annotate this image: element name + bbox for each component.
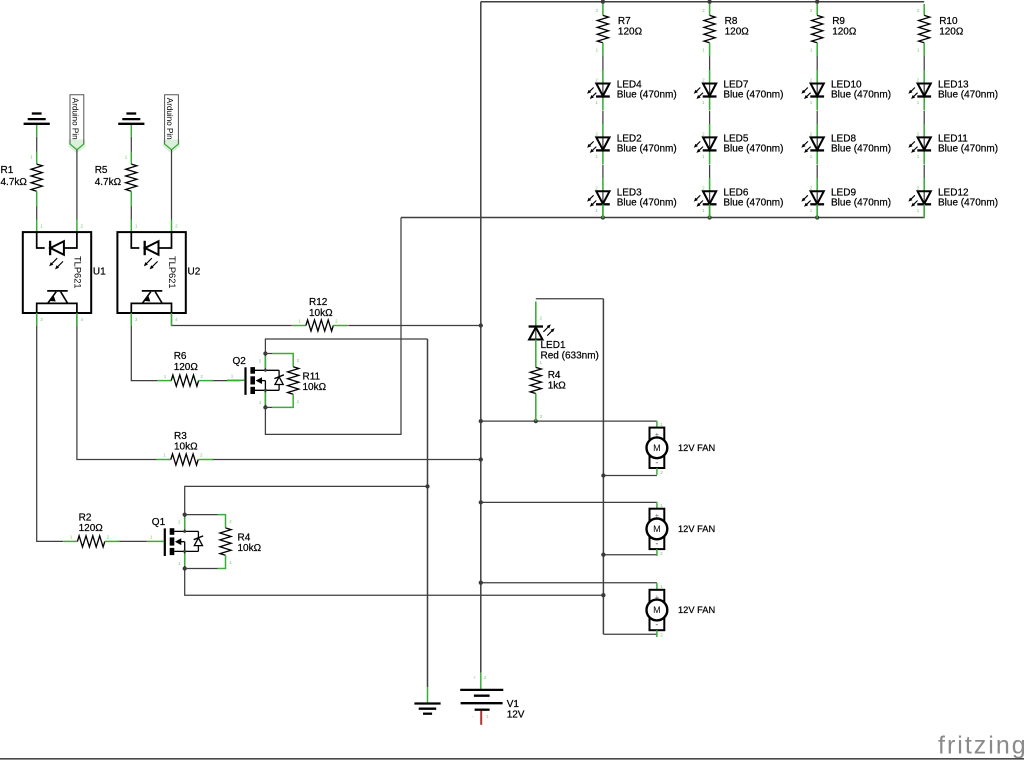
wire ground to R1 <box>36 125 38 137</box>
wire column 1 segment below LED2 <box>602 165 604 179</box>
junction Q1 source wire at bus <box>601 593 605 597</box>
svg-text:U2: U2 <box>188 267 201 278</box>
transistor Q2 N-MOSFET <box>227 351 284 409</box>
svg-text:10kΩ: 10kΩ <box>238 543 262 554</box>
svg-text:120Ω: 120Ω <box>174 362 199 373</box>
svg-text:R11: R11 <box>303 372 321 383</box>
wire R6 to Q2 gate <box>211 380 241 382</box>
svg-text:R10: R10 <box>939 16 958 27</box>
junction top rail col1 <box>601 0 605 4</box>
junction top rail col2 <box>707 0 711 4</box>
LED LED8 Blue 470nm <box>801 124 891 164</box>
LED LED7 Blue 470nm <box>694 70 784 110</box>
optocoupler U1 TLP621 <box>23 232 106 326</box>
junction fan3 feed at +12V rail <box>479 581 483 585</box>
bottom border line <box>0 758 1024 760</box>
resistor R10 120ohm <box>917 4 964 57</box>
connector J1 Arduino Pin for U1 <box>69 95 86 154</box>
svg-text:M: M <box>653 605 661 615</box>
wire column 2 to bottom rail <box>709 204 711 217</box>
connector J2 Arduino Pin for U2 <box>163 95 180 154</box>
svg-text:Blue (470nm): Blue (470nm) <box>723 90 783 101</box>
wire U2 pin3 to R6 <box>131 313 157 381</box>
junction bottom rail col1 <box>601 215 605 219</box>
wire column 2 segment R-LED <box>709 56 711 70</box>
svg-text:R7: R7 <box>618 16 631 27</box>
LED LED3 Blue 470nm <box>587 178 677 218</box>
LED LED11 Blue 470nm <box>908 124 998 164</box>
resistor R3 10kohm <box>157 431 213 465</box>
svg-text:120Ω: 120Ω <box>832 26 857 37</box>
wire Q1 drain to ground line <box>185 486 428 514</box>
LED LED9 Blue 470nm <box>801 178 891 218</box>
svg-text:R8: R8 <box>725 16 738 27</box>
resistor R6 120ohm <box>157 351 213 386</box>
wire fan 3 negative to bus <box>603 633 657 635</box>
wire column 3 segment R-LED <box>816 56 818 70</box>
wire top +12V rail of LED grid <box>481 1 924 3</box>
svg-text:12V FAN: 12V FAN <box>678 443 715 453</box>
svg-text:120Ω: 120Ω <box>618 26 643 37</box>
svg-text:Q2: Q2 <box>233 356 247 367</box>
wire column 2 segment below LED7 <box>709 111 711 125</box>
svg-text:R9: R9 <box>832 16 845 27</box>
wire ground to R5 <box>130 125 132 137</box>
resistor R1 4.7kohm <box>1 164 43 191</box>
svg-text:Blue (470nm): Blue (470nm) <box>831 198 891 209</box>
svg-text:TLP621: TLP621 <box>167 256 177 289</box>
ground symbol for U1 LED side <box>24 114 50 124</box>
LED LED10 Blue 470nm <box>801 70 891 110</box>
wire U1 pin3 to R2 <box>37 313 64 541</box>
svg-text:-: - <box>655 620 658 630</box>
svg-text:120Ω: 120Ω <box>939 26 964 37</box>
resistor R2 120ohm <box>63 513 119 547</box>
wire +12V rail to fan 2 positive <box>481 501 657 503</box>
svg-text:10kΩ: 10kΩ <box>174 441 198 452</box>
wire column 1 segment R-LED <box>602 56 604 70</box>
svg-text:R4: R4 <box>238 533 251 544</box>
svg-text:Blue (470nm): Blue (470nm) <box>831 144 891 155</box>
resistor R12 10kohm <box>292 297 348 331</box>
svg-text:Blue (470nm): Blue (470nm) <box>723 144 783 155</box>
wire column 2 segment below LED5 <box>709 165 711 179</box>
optocoupler U2 TLP621 <box>117 232 200 326</box>
battery V1 12V <box>460 673 525 725</box>
junction Q1 drain wire at ground line <box>425 484 429 488</box>
svg-text:-: - <box>655 538 658 548</box>
resistor R4 10kohm gate-source of Q1 <box>185 515 262 569</box>
wire R1 to U1 pin1 <box>36 191 38 206</box>
wire R3 to +12V rail <box>212 459 481 461</box>
transistor Q1 N-MOSFET <box>147 512 204 570</box>
svg-text:Blue (470nm): Blue (470nm) <box>723 198 783 209</box>
LED LED12 Blue 470nm <box>908 178 998 218</box>
wire Arduino pin to U1 pin2 <box>76 150 78 220</box>
LED LED13 Blue 470nm <box>908 70 998 110</box>
wire column 1 to bottom rail <box>602 204 604 217</box>
junction bottom rail col3 <box>815 215 819 219</box>
motor M2 12V FAN <box>647 502 716 556</box>
wire column 4 segment R-LED <box>923 56 925 70</box>
resistor R8 120ohm <box>702 4 749 57</box>
svg-text:120Ω: 120Ω <box>79 523 104 534</box>
wire R12 to +12V rail <box>348 325 481 327</box>
ground symbol for U2 LED side <box>118 114 144 124</box>
junction R12 at +12V rail <box>479 323 483 327</box>
wire fan 2 negative to bus <box>603 554 657 556</box>
svg-text:Arduino Pin: Arduino Pin <box>165 98 174 140</box>
junction R3 at +12V rail <box>479 457 483 461</box>
wire column 4 segment below LED13 <box>923 111 925 125</box>
junction bottom rail col2 <box>707 215 711 219</box>
LED LED4 Blue 470nm <box>587 70 677 110</box>
wire R2 to Q1 gate <box>117 540 147 542</box>
resistor R7 120ohm <box>596 4 643 57</box>
wire LED1 anode to fan negative bus <box>536 298 604 300</box>
svg-text:R3: R3 <box>174 431 187 442</box>
motor M1 12V FAN <box>647 421 716 475</box>
svg-text:1kΩ: 1kΩ <box>548 381 567 392</box>
wire Q2 source loop to LED grid bottom rail <box>265 218 401 435</box>
svg-text:Blue (470nm): Blue (470nm) <box>938 198 998 209</box>
svg-text:R4: R4 <box>548 370 561 381</box>
wire Q2 drain to ground stem <box>265 339 427 354</box>
wire Arduino pin to U2 pin2 <box>171 150 173 220</box>
junction fan2 negative at bus <box>601 553 605 557</box>
wire column 3 segment below LED8 <box>816 165 818 179</box>
ground symbol at ground line <box>414 687 440 714</box>
wire main vertical +12V rail from LED grid to battery <box>480 2 482 673</box>
resistor R5 4.7kohm <box>95 164 137 191</box>
wire column 4 to bottom rail <box>923 204 925 217</box>
wire column 1 segment below LED4 <box>602 111 604 125</box>
wire +12V rail to fan 1 positive <box>481 420 657 422</box>
svg-text:-: - <box>655 457 658 467</box>
svg-text:R2: R2 <box>79 513 92 524</box>
svg-text:Blue (470nm): Blue (470nm) <box>617 90 677 101</box>
svg-text:Arduino Pin: Arduino Pin <box>70 98 79 140</box>
motor M3 12V FAN <box>647 583 716 637</box>
svg-text:12V: 12V <box>507 710 525 721</box>
svg-text:+: + <box>473 675 476 680</box>
wire column 4 segment below LED11 <box>923 165 925 179</box>
wire fan 1 negative to bus <box>603 475 657 477</box>
svg-text:R5: R5 <box>95 165 108 176</box>
svg-text:U1: U1 <box>93 267 106 278</box>
junction fan2 feed at +12V rail <box>479 500 483 504</box>
svg-text:V1: V1 <box>507 699 520 710</box>
wire U1 pin4 to R3 <box>77 313 157 460</box>
resistor R9 120ohm <box>810 4 857 57</box>
svg-text:4.7kΩ: 4.7kΩ <box>1 177 28 188</box>
junction top rail col3 <box>815 0 819 4</box>
junction fan1 feed at +12V rail <box>479 419 483 423</box>
svg-text:M: M <box>653 524 661 534</box>
svg-text:fritzing: fritzing <box>938 732 1024 760</box>
svg-text:Red (633nm): Red (633nm) <box>541 350 599 361</box>
wire ground stem vertical <box>427 339 429 687</box>
junction fan1 negative at bus <box>601 473 605 477</box>
svg-text:Blue (470nm): Blue (470nm) <box>617 198 677 209</box>
wire column 3 to bottom rail <box>816 204 818 217</box>
wire bottom rail of LED grid <box>401 217 924 219</box>
wire U2 pin4 to R12 <box>172 313 292 326</box>
resistor R11 10kohm gate-source of Q2 <box>265 354 326 408</box>
LED LED6 Blue 470nm <box>694 178 784 218</box>
svg-text:Blue (470nm): Blue (470nm) <box>938 144 998 155</box>
svg-text:10kΩ: 10kΩ <box>309 308 333 319</box>
wire R5 to U2 pin1 <box>130 191 132 206</box>
svg-text:Blue (470nm): Blue (470nm) <box>938 90 998 101</box>
wire Q1 source to fan negative bus <box>185 569 604 596</box>
svg-text:Blue (470nm): Blue (470nm) <box>831 90 891 101</box>
wire column 3 segment below LED10 <box>816 111 818 125</box>
svg-text:R1: R1 <box>1 165 14 176</box>
LED LED2 Blue 470nm <box>587 124 677 164</box>
wire +12V rail to fan 3 positive <box>481 582 657 584</box>
LED LED5 Blue 470nm <box>694 124 784 164</box>
junction R4 bottom at fan1 feed <box>534 419 538 423</box>
svg-text:M: M <box>653 443 661 453</box>
LED LED1 Red 633nm <box>529 302 599 366</box>
svg-text:TLP621: TLP621 <box>73 256 83 289</box>
svg-text:12V FAN: 12V FAN <box>678 524 715 534</box>
svg-text:12V FAN: 12V FAN <box>678 605 715 615</box>
svg-text:R6: R6 <box>174 351 187 362</box>
svg-text:10kΩ: 10kΩ <box>303 382 327 393</box>
resistor R4 1kohm for LED1 <box>530 340 566 422</box>
svg-text:4.7kΩ: 4.7kΩ <box>95 177 122 188</box>
svg-text:Q1: Q1 <box>152 517 166 528</box>
svg-text:Blue (470nm): Blue (470nm) <box>617 144 677 155</box>
svg-text:120Ω: 120Ω <box>725 26 750 37</box>
svg-text:R12: R12 <box>309 297 328 308</box>
wire fan negative bus vertical <box>602 299 604 635</box>
